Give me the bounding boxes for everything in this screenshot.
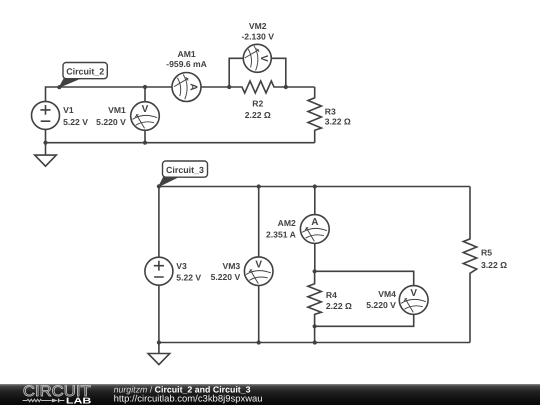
wire VM3 top stub <box>258 187 260 257</box>
voltmeter VM2 <box>243 44 271 72</box>
ground Circuit_3 <box>148 343 170 365</box>
svg-text:Circuit_2: Circuit_2 <box>66 66 104 76</box>
wire V1 bottom stub <box>45 129 47 142</box>
resistor R3 <box>308 87 321 143</box>
wire AM2 top stub <box>314 187 316 215</box>
wire to R3 <box>286 86 315 88</box>
label AM2 name/value <box>266 218 296 240</box>
resistor R4 <box>308 271 321 326</box>
label AM1 name/value <box>166 49 207 69</box>
wire top rail Circuit_2 <box>46 87 173 101</box>
svg-text:A: A <box>311 217 318 228</box>
svg-text:VM3: VM3 <box>223 261 241 271</box>
svg-text:LAB: LAB <box>66 395 92 405</box>
svg-text:2.22 Ω: 2.22 Ω <box>245 110 271 120</box>
voltmeter VM4 <box>399 286 428 315</box>
svg-text:AM1: AM1 <box>178 49 196 59</box>
svg-text:2.351 A: 2.351 A <box>266 230 296 240</box>
node dot ground junction <box>43 141 47 145</box>
node dot right of R2 <box>284 85 288 89</box>
node dot VM1 top <box>143 85 147 89</box>
svg-text:V: V <box>410 288 417 299</box>
wire AM1 to node <box>201 86 229 88</box>
wire bottom rail Circuit_3 <box>159 342 470 344</box>
wire VM1 bottom stub <box>144 130 146 142</box>
svg-text:V: V <box>142 104 149 115</box>
node dot Circuit_2 net anchor <box>57 85 61 89</box>
svg-text:2.22 Ω: 2.22 Ω <box>326 301 352 311</box>
svg-text:-2.130 V: -2.130 V <box>241 32 274 42</box>
node dot AM2 top <box>313 184 317 188</box>
label V3 name/value <box>176 261 201 283</box>
voltmeter VM3 <box>244 257 273 286</box>
svg-text:5.220 V: 5.220 V <box>211 272 241 282</box>
svg-text:-959.6 mA: -959.6 mA <box>166 59 207 69</box>
label R3 name/value <box>325 106 351 126</box>
svg-text:R5: R5 <box>481 248 492 258</box>
voltage source V3 <box>145 257 173 285</box>
resistor R2 <box>229 81 286 93</box>
label R2 name/value <box>245 98 271 120</box>
wire VM4 bottom branch <box>315 314 414 326</box>
label R5 name/value <box>481 248 507 270</box>
svg-text:V: V <box>258 55 269 62</box>
wire VM2 left branch <box>229 58 243 87</box>
wire VM1 top stub <box>144 87 146 102</box>
wire VM2 right branch <box>271 58 286 87</box>
resistor R5 <box>463 187 476 343</box>
svg-text:5.220 V: 5.220 V <box>96 117 126 127</box>
wire VM4 top branch <box>315 271 414 285</box>
wire bottom rail Circuit_2 <box>46 142 315 144</box>
label R4 name/value <box>326 290 352 311</box>
svg-text:V: V <box>255 259 262 270</box>
svg-text:Circuit_3: Circuit_3 <box>166 165 204 175</box>
svg-text:3.22 Ω: 3.22 Ω <box>325 117 351 127</box>
label VM1 name/value <box>96 105 126 127</box>
net label Circuit_2 <box>59 63 107 88</box>
node dot VM3 bottom <box>257 340 261 344</box>
svg-text:http://circuitlab.com/c3kb8j9s: http://circuitlab.com/c3kb8j9spxwau <box>114 394 263 404</box>
svg-text:5.220 V: 5.220 V <box>366 300 396 310</box>
wire R4 node to bottom rail <box>314 326 316 342</box>
svg-text:3.22 Ω: 3.22 Ω <box>481 260 507 270</box>
label VM3 name/value <box>211 261 241 282</box>
label VM4 name/value <box>366 289 396 310</box>
node dot VM3 top <box>257 184 261 188</box>
wire VM3 bottom stub <box>258 286 260 343</box>
wire V3 top stub <box>158 187 160 258</box>
label V1 name/value <box>63 105 88 127</box>
svg-text:VM4: VM4 <box>378 289 396 299</box>
svg-text:R2: R2 <box>252 98 263 108</box>
svg-text:VM1: VM1 <box>108 105 126 115</box>
svg-text:R4: R4 <box>326 290 337 300</box>
svg-text:5.22 V: 5.22 V <box>176 273 201 283</box>
wire V3 bottom stub <box>158 285 160 342</box>
ammeter AM1 <box>172 73 201 102</box>
net label Circuit_3 <box>159 161 208 186</box>
wire top rail Circuit_3 <box>159 186 470 188</box>
svg-text:A: A <box>187 83 198 90</box>
node dot Circuit_3 net anchor <box>157 184 161 188</box>
node dot R4 bottom <box>313 324 317 328</box>
footer bar (decorative) <box>0 383 540 405</box>
svg-text:VM2: VM2 <box>249 21 267 31</box>
wire AM2 to R4 node <box>314 243 316 271</box>
svg-text:V3: V3 <box>176 261 187 271</box>
node dot R4 top <box>313 269 317 273</box>
voltage source V1 <box>32 101 60 129</box>
ground Circuit_2 <box>35 143 57 167</box>
node dot left of R2 <box>227 85 231 89</box>
node dot VM1 bottom <box>143 141 147 145</box>
svg-text:R3: R3 <box>325 106 336 116</box>
voltmeter VM1 <box>131 102 160 131</box>
node dot AM2 branch bottom <box>313 340 317 344</box>
node dot V3 bottom / ground junction <box>157 340 161 344</box>
svg-text:AM2: AM2 <box>278 218 296 228</box>
ammeter AM2 <box>300 215 329 244</box>
svg-text:5.22 V: 5.22 V <box>63 117 88 127</box>
label VM2 name/value <box>241 21 274 42</box>
svg-text:V1: V1 <box>63 105 74 115</box>
